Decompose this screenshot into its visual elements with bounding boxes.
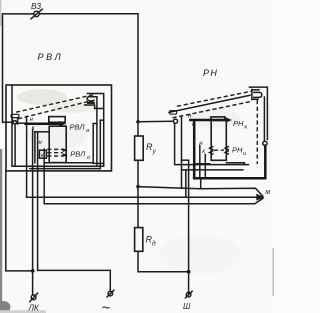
terminal tilde slash	[107, 290, 114, 297]
terminal LK circle	[31, 295, 36, 300]
coil RNk thick bar	[190, 119, 227, 122]
arrow M	[256, 194, 264, 201]
RNBLOCK	[169, 68, 267, 294]
linkage dashed vertical	[256, 100, 258, 164]
contact hook RVL top	[87, 97, 97, 100]
terminal Sh circle	[186, 292, 191, 297]
wire thick right to bottom	[194, 146, 265, 179]
svg-text:РВЛ: РВЛ	[70, 150, 86, 159]
terminal Sh slash	[185, 291, 192, 298]
armature dashed link lower	[18, 101, 92, 119]
svg-text:в: в	[86, 128, 89, 134]
coil RVLo body	[49, 126, 66, 162]
coil RNo marks left	[210, 147, 213, 154]
armature pivot RN circle	[173, 119, 177, 123]
svg-text:РН: РН	[203, 68, 218, 78]
terminal circle RN right	[263, 141, 267, 145]
BOTTOM	[6, 130, 192, 313]
label k2 box	[39, 150, 46, 158]
wire M1	[138, 187, 263, 197]
wire M2 thick	[27, 196, 259, 198]
terminal VZ slash	[31, 9, 42, 19]
armature pivot RVL	[11, 114, 19, 117]
RVLBLOCK	[6, 52, 112, 270]
svg-text:о: о	[87, 155, 90, 161]
TOPWIRES	[3, 2, 189, 272]
coil RNo marks right	[225, 147, 228, 154]
svg-text:ВЗ: ВЗ	[31, 2, 41, 11]
coil RVLv thick bar	[26, 122, 60, 125]
wire armature link down	[181, 116, 183, 188]
svg-text:РВЛ: РВЛ	[70, 122, 86, 131]
wire tilde route	[38, 270, 111, 291]
svg-text:д: д	[152, 240, 156, 248]
coil RNk cap	[211, 117, 225, 120]
wire down to Ru	[137, 122, 139, 136]
relay RVL outer box	[6, 85, 112, 171]
wire pivot down	[175, 123, 249, 164]
contact hook RN leaf	[254, 92, 262, 97]
wire k2 down	[204, 155, 206, 179]
wire down to Rd	[137, 187, 139, 228]
wire pivot RVL down	[14, 124, 16, 166]
coil RNk left leg thick	[193, 121, 196, 179]
wire inner loop a	[44, 124, 97, 167]
wire LK exit	[30, 168, 100, 170]
wire tilde exit	[37, 132, 39, 271]
coil RVLo arrows	[63, 148, 68, 152]
node junction M1	[136, 185, 140, 189]
pivot legs	[11, 118, 13, 124]
wire VZ right to x138 and down	[39, 14, 138, 122]
wire coil bottom H	[194, 163, 209, 165]
terminal LK slash	[30, 293, 38, 301]
coil RVLv cap	[49, 117, 65, 123]
terminal tilde circle	[108, 291, 113, 296]
svg-text:РН: РН	[233, 119, 244, 128]
svg-text:РВЛ: РВЛ	[38, 52, 64, 62]
armature pivot RN blob	[170, 111, 177, 115]
svg-text:ЛК: ЛК	[28, 304, 40, 313]
coil RNk arrow	[226, 117, 233, 123]
wire LK vertical	[32, 130, 34, 296]
contact hook RVL vertical	[96, 97, 98, 124]
wire left coil loop	[35, 131, 49, 133]
armature RN dashed lower	[173, 102, 251, 118]
svg-text:м: м	[265, 189, 270, 196]
wire Rd down and right to Sh node	[138, 251, 189, 271]
wire step to M1	[194, 164, 201, 189]
contact hook RN vertical	[251, 89, 253, 99]
bracket RN inner	[263, 97, 265, 141]
wire n2 down	[199, 146, 201, 179]
wire left edge down	[6, 171, 33, 271]
armature RN solid	[169, 95, 250, 112]
node junction LK	[31, 269, 35, 273]
node junction at Ru top	[136, 120, 140, 124]
svg-text:РН: РН	[232, 146, 243, 155]
resistor Ru	[135, 136, 144, 160]
wire junction to RN pivot	[138, 120, 173, 123]
contact hook RVL base	[85, 105, 104, 109]
MIDWIRES	[27, 149, 271, 204]
bracket RN top	[249, 87, 267, 139]
contact hook RVL bar	[88, 102, 95, 104]
resistor Rd	[135, 228, 143, 252]
wire M3	[44, 149, 263, 204]
node junction Sh	[187, 270, 191, 274]
terminal VZ circle	[34, 11, 39, 16]
pivot terminal circle RVL	[13, 121, 16, 124]
wire pivot to bar	[17, 122, 26, 124]
svg-text:~: ~	[102, 300, 111, 313]
contact hook RN top	[252, 89, 259, 91]
armature RN dashed upper	[177, 91, 252, 106]
coil RVLv left leg down to M2	[26, 117, 28, 198]
contact hook RN base	[252, 98, 258, 100]
wire stub to M2	[185, 170, 187, 197]
svg-text:у: у	[152, 148, 157, 155]
coil RNo dash	[214, 149, 224, 151]
wire inner loop b	[100, 119, 103, 121]
wire Ru to node	[137, 160, 139, 186]
coil RNo body	[211, 120, 226, 160]
wire VZ left to left edge and down	[3, 14, 34, 122]
svg-text:и: и	[243, 151, 246, 157]
coil RVLv arrow	[59, 121, 67, 127]
coil RVLo dashes	[47, 148, 63, 150]
contact hook RVL bowtie	[88, 100, 94, 103]
armature dashed link upper	[16, 95, 93, 112]
wire Sh vertical	[182, 159, 189, 161]
relay RVL inner frame	[12, 86, 104, 167]
svg-text:к: к	[244, 125, 247, 131]
svg-text:Ш: Ш	[183, 302, 191, 311]
